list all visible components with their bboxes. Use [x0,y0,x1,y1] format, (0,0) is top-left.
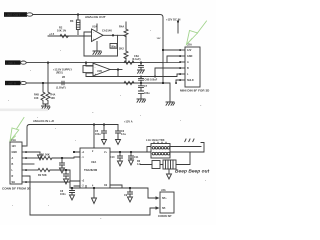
pin 4 J2 [180,67,185,69]
svg-text:SP-: SP- [162,207,166,210]
svg-text:B: B [12,163,14,166]
wire pin3 J1 [26,157,40,159]
wire +12V stub [177,22,179,34]
wire right ground drop [163,83,170,102]
pin 1 J1 [22,145,26,147]
svg-text:U1A: U1A [92,26,97,29]
pin 1 J3 [150,197,156,199]
connector J3 [156,189,175,213]
svg-text:R: R [12,175,14,178]
net label LINE OUT (inverse video) [4,12,33,17]
wire out rail to connector [86,74,180,77]
wire divider vertical [125,22,127,62]
svg-text:GND: GND [187,55,193,58]
junction stub [177,21,179,23]
wire U1B minus tap [86,63,93,66]
svg-text:V+: V+ [104,152,108,154]
wire pin6 feed [176,80,180,83]
junction IC in [73,151,75,153]
svg-text:B: B [187,67,189,70]
ground C6A [138,70,145,73]
svg-text:100u: 100u [95,133,101,136]
wire pin1 J1 [22,145,25,147]
svg-text:LINE R: LINE R [6,81,17,85]
svg-text:2: 2 [92,151,94,153]
ground op-amp U1A [93,42,102,55]
wire T1 right lower [170,151,201,153]
tick marks above [185,139,194,142]
junction pin1 [162,49,164,51]
wire pin2 feed [167,56,180,63]
svg-text:(1.05uF): (1.05uF) [56,86,66,89]
svg-text:2K2: 2K2 [119,47,124,51]
op-amp U1B label box [83,66,97,73]
capacitor C2 lower [60,158,65,168]
svg-text:C7: C7 [144,85,148,88]
IC U2 TDA2822 [80,148,110,188]
capacitor C2 in feedback [110,44,117,49]
wire mid bus [27,62,163,64]
capacitor C11 [129,152,134,160]
svg-text:SP+: SP+ [162,197,167,200]
capacitor C10 out [118,152,123,161]
IC bottom pin [86,186,94,199]
svg-text:+: + [93,37,95,41]
svg-text:R1 56K: R1 56K [41,153,50,156]
capacitor C6 [116,125,121,138]
svg-text:GND: GND [12,151,18,154]
net label AUDIO L (inverse video) [5,60,26,65]
svg-text:LINE OUT: LINE OUT [5,13,20,17]
pin 5 J1 [22,169,26,171]
svg-text:LINE L: LINE L [6,61,16,65]
capacitor C6A to ground [139,63,144,70]
junction [77,14,79,16]
wire pin3 feed [163,62,180,64]
svg-text:2R: 2R [62,76,65,79]
svg-text:10K: 10K [34,97,39,100]
ground arrow C5 [102,137,107,145]
svg-text:+12V A: +12V A [124,121,133,124]
svg-text:(0.1uF): (0.1uF) [132,58,141,61]
svg-text:(REG): (REG) [56,73,63,75]
junction R2 [65,169,67,171]
ground C7 [137,99,146,102]
svg-text:-: - [95,65,96,69]
junction R1 [61,157,63,159]
svg-text:0.1u: 0.1u [121,133,126,136]
wire top bus +12V [33,15,163,84]
pin 2 J1 [22,151,26,153]
resistor R9 on low bus [124,81,134,84]
pin 6 J2 [180,79,185,81]
svg-text:+12.8V SUPPLY: +12.8V SUPPLY [53,68,72,71]
svg-text:-2: -2 [82,186,85,188]
wire bottom rail [30,208,156,215]
wire IC top feed [93,125,95,149]
svg-text:A: A [12,157,14,160]
ground arrow C11 [129,160,134,165]
resistor R4B vertical [124,51,128,59]
svg-text:CONN DF FROM 3D: CONN DF FROM 3D [2,187,32,191]
capacitor C9 [128,188,133,197]
junction [162,82,164,84]
pin 6 J1 [22,175,26,177]
connector J2 [185,43,200,87]
capacitor C8 [70,188,75,195]
pin labels J2 [187,49,194,82]
wire from top bus to R3 [77,15,79,21]
green arrow top [187,21,207,45]
wire pin1 feed [163,49,180,51]
svg-text:R3: R3 [70,19,74,23]
junction [85,62,87,64]
resistor R1 [40,156,52,159]
ground arrow C9 [128,197,133,202]
svg-text:A: A [187,61,189,64]
resistor R2 horizontal [60,34,69,37]
svg-text:+2: +2 [82,181,85,183]
svg-text:SHLD: SHLD [187,79,194,82]
svg-text:100u: 100u [144,92,150,95]
wire pin4 branch [155,68,180,77]
ground arrow C2 [60,168,65,173]
svg-text:C10: C10 [110,156,115,159]
connector J1 [10,138,22,184]
op-amp U1B [93,63,110,76]
resistor R4A vertical [124,29,128,37]
svg-text:L: L [187,73,189,76]
small box B1 [152,161,160,169]
pin 3 J2 [180,61,185,63]
capacitor C6B [139,77,144,84]
capacitor C7B [139,91,144,99]
wire pin5 J1 [26,169,38,171]
svg-text:C6B 100uF: C6B 100uF [145,79,158,82]
svg-text:ANALOG IN L+R: ANALOG IN L+R [33,119,54,123]
junction rail 2 [93,187,95,189]
junction C10 [119,151,121,153]
wire U1B feedback loop [86,70,118,77]
wire bottom bus [27,125,118,147]
capacitor C3 [64,170,69,179]
hatched box B2 [163,160,176,169]
ground arrow B2 [167,169,172,179]
junction low bus left [42,82,44,84]
ground right [166,102,175,105]
svg-text:+1: +1 [82,152,85,154]
pin 7 J1 [22,181,26,183]
ground divider [42,106,51,109]
ground arrow IC [92,198,97,204]
transformer T1 [151,142,170,158]
junction C6B rail [140,76,142,78]
wire low bus [27,82,163,84]
svg-text:+2.5: +2.5 [49,33,55,36]
wire U1A output [103,34,126,36]
ground arrow C3 [64,179,69,184]
svg-text:ANALOG OUT: ANALOG OUT [85,15,106,19]
connector end bracket [201,143,204,153]
pin end dots J1 [25,151,27,183]
wire minus feedback tap [84,32,92,56]
junction rail 1 [71,187,73,189]
wire B row [140,152,190,165]
svg-text:L1A 10mH TDK: L1A 10mH TDK [146,139,165,142]
junction low bus left2 [47,62,49,64]
op-amp U1A [92,29,113,42]
svg-text:L: L [12,169,14,172]
ground arrow C10 [118,161,123,166]
svg-text:12V: 12V [12,145,17,148]
pin stub IC left top [74,152,80,186]
svg-text:J1A: J1A [11,138,16,142]
svg-text:CA3140: CA3140 [102,29,112,33]
svg-text:-1: -1 [82,157,85,159]
junction pin6 [175,82,177,84]
pin labels J1 [12,145,18,184]
pin stub IC right top [110,151,147,153]
pin 4 J1 [22,163,26,165]
wire pin2 J1 ground [26,152,40,155]
svg-text:10K: 10K [51,97,56,100]
svg-text:10K 1%: 10K 1% [57,30,67,33]
ground arrow pin2 [38,155,43,160]
svg-text:MINI DIN 8F FOR 3D: MINI DIN 8F FOR 3D [180,89,210,93]
wire op-amp input rail [48,35,92,37]
resistor R2b [38,168,50,171]
svg-text:12V: 12V [157,38,162,40]
wire resistor join [43,104,48,106]
pin 1 J2 [180,49,185,51]
capacitor C5 [102,125,107,138]
wire R2 to IC [50,170,80,181]
pin 5 J2 [180,73,185,75]
svg-text:C11: C11 [134,156,139,159]
junction output [112,34,114,36]
ground arrow C6 [116,137,121,145]
net label AUDIO R (inverse video) [5,81,26,86]
svg-text:TDA2822M: TDA2822M [84,169,97,172]
svg-text:R4A: R4A [119,25,124,29]
svg-text:100p: 100p [111,46,117,48]
svg-text:Beep Beep out: Beep Beep out [175,169,210,175]
resistor R6 on mid bus [124,61,134,64]
wire feedback bottom U1A [84,35,118,56]
svg-text:100n: 100n [60,193,66,196]
svg-text:12V: 12V [187,49,192,52]
resistor R7 vertical [41,83,45,104]
pin stub IC right bottom [110,185,122,188]
svg-text:R2: R2 [59,27,63,30]
wire pin7 J1 [26,182,70,188]
svg-text:SH: SH [12,181,16,184]
pin 3 J1 [22,157,26,159]
wire U1B output [110,69,122,71]
wire R1 to IC [52,157,80,158]
svg-text:-: - [93,31,94,35]
junction C5 [103,124,105,126]
junction IC top feed [93,124,95,126]
junction mid bus [140,62,142,64]
wire T1 right upper [170,146,201,148]
svg-text:J3A: J3A [161,189,166,192]
capacitor C10 inline mark [62,81,64,85]
junction [117,69,119,71]
wire T1 left upper [147,147,151,153]
resistor R8 vertical [46,63,50,104]
junction pin4 branch [154,76,156,78]
ground arrow C8 [70,195,75,200]
svg-text:CONN SP: CONN SP [158,214,172,218]
svg-text:O2: O2 [104,185,108,187]
pin entry arrows J3 [156,196,160,200]
junction rail 3 [129,187,131,189]
svg-text:R2 56K: R2 56K [38,174,47,177]
pin 2 J3 [150,207,156,209]
junction C11 [130,151,132,153]
wire pin4 J1 [26,163,34,165]
pin end dots J2 [179,49,181,81]
wire pin6 J1 down rail [26,176,30,215]
pin 2 J2 [180,55,185,57]
svg-text:U2A: U2A [91,160,96,164]
junction low bus right [140,82,142,84]
svg-text:U1B: U1B [97,70,102,73]
capacitor C7A [139,83,144,91]
op-amp U1A power stub [96,24,98,31]
resistor R3 vertical [76,20,80,35]
green arrow bottom left [10,118,24,142]
wire mid rail [70,188,156,198]
